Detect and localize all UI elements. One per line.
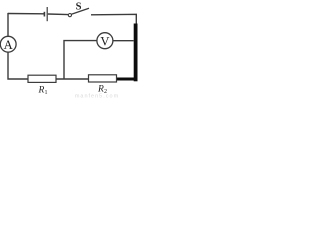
switch S pivot circle [68,14,71,17]
svg-text:manfen5.com: manfen5.com [75,94,119,99]
battery cell: short plate (negative) [43,12,45,17]
switch blade [71,8,89,14]
resistor R2 box [89,75,117,82]
wire ammeter top [7,13,9,36]
svg-text:V: V [100,35,109,49]
svg-text:1: 1 [45,90,48,96]
wire switch to top-right corner [91,14,136,25]
wire bottom-left vertical and horizontal [8,52,28,79]
wire battery to switch [48,13,68,16]
ammeter A [0,36,16,52]
svg-text:R: R [38,86,45,96]
battery cell: long plate (positive) [46,7,48,21]
voltmeter V [97,33,113,49]
wire R1 to R2 with junction [56,78,89,80]
svg-text:S: S [76,1,82,12]
rheostat thick bar (right electrode) [134,24,138,82]
wire voltmeter to bar [113,40,134,42]
voltmeter branch: corner and left wire [64,41,97,79]
svg-text:A: A [4,38,13,52]
thick wire R2 to bar [116,78,137,81]
resistor R1 box [28,75,56,82]
wire top-left horizontal [8,13,44,15]
